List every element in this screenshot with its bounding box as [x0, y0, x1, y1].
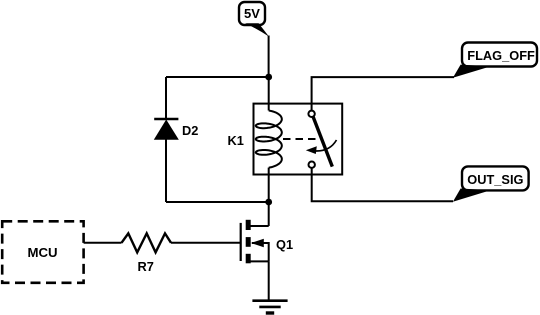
wire bottom horizontal (diode to junction): [166, 201, 269, 203]
wire 5V to top junction: [268, 36, 270, 78]
mosfet Q1 channel bar bottom: [246, 254, 251, 263]
wire diode bottom vertical: [165, 139, 167, 202]
svg-text:Q1: Q1: [276, 237, 293, 252]
mosfet Q1 bottom lead: [250, 260, 269, 262]
wire coil bottom to bottom junction: [268, 168, 270, 202]
svg-text:FLAG_OFF: FLAG_OFF: [467, 48, 535, 63]
svg-text:R7: R7: [138, 259, 154, 274]
wire source to ground: [268, 261, 270, 300]
relay armature dashed link: [283, 138, 316, 140]
resistor R7: [122, 233, 172, 273]
wire junction to relay coil: [268, 77, 270, 111]
junction top node: [265, 74, 272, 81]
svg-text:OUT_SIG: OUT_SIG: [467, 172, 523, 187]
relay switch bottom terminal: [309, 162, 315, 168]
relay K1 coil: [256, 111, 282, 168]
wire resistor to mosfet gate: [171, 242, 241, 244]
mosfet Q1 channel bar middle: [246, 237, 251, 247]
wire junction to mosfet drain: [268, 202, 270, 226]
wire switch bottom to OUT_SIG: [312, 168, 453, 201]
power flag 5V: [239, 2, 269, 37]
relay switch blade: [313, 117, 332, 167]
wire top horizontal (diode branch to junction): [166, 76, 269, 78]
wire MCU to resistor: [84, 242, 122, 244]
mosfet Q1 source lead: [252, 243, 269, 261]
mosfet Q1 drain lead: [250, 225, 269, 227]
relay switch top terminal: [308, 111, 314, 117]
ground bar 1: [252, 299, 287, 302]
relay switch motion arrow: [312, 140, 337, 151]
svg-text:MCU: MCU: [27, 245, 57, 260]
svg-text:D2: D2: [182, 123, 198, 138]
net flag OUT_SIG: [453, 166, 529, 201]
junction bottom node: [265, 199, 272, 206]
wire switch top to FLAG_OFF: [312, 77, 454, 111]
ground bar 2: [259, 306, 280, 309]
ground bar 3: [266, 311, 274, 314]
relay K1 box: [254, 104, 343, 175]
MCU box: [2, 221, 83, 282]
net flag FLAG_OFF: [453, 43, 537, 78]
mosfet Q1 body arrow: [251, 239, 264, 248]
diode D2: [154, 119, 199, 140]
svg-text:K1: K1: [228, 133, 244, 148]
wire diode top vertical: [165, 77, 167, 119]
svg-text:5V: 5V: [244, 6, 260, 21]
mosfet Q1 channel bar top: [246, 220, 251, 230]
mosfet Q1 gate line: [240, 223, 242, 261]
